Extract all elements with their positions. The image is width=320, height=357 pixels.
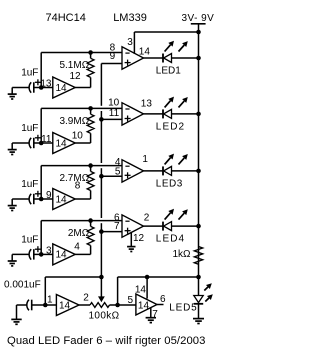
comparator U2d LM339 stage 4 <box>122 215 144 237</box>
node top rail / right rail junction <box>196 30 201 35</box>
wire top (feedback + comparator minus) stage 2 <box>41 107 122 109</box>
svg-text:74HC14: 74HC14 <box>46 12 86 24</box>
wire input node to inverter 3 input <box>41 198 53 200</box>
svg-text:1uF: 1uF <box>21 68 38 79</box>
wire power loop horizontal <box>118 276 199 278</box>
wire capacitor C5 to input node <box>32 304 46 306</box>
plus polarity mark C4 <box>35 248 41 250</box>
wire LED1 to right rail <box>172 57 199 59</box>
emission arrows LED3 <box>165 158 171 165</box>
wire LED5 cathode to ground <box>198 304 200 319</box>
svg-text:8: 8 <box>75 180 81 191</box>
wire input node up to feedback/top wire stage 4 <box>40 221 42 255</box>
plus polarity mark C1 <box>35 81 41 83</box>
ground inverter 6 pin 7 <box>146 317 156 319</box>
wire top rail <box>134 31 198 33</box>
svg-text:1: 1 <box>142 154 148 165</box>
emission arrows LED5 <box>204 287 208 291</box>
emission arrows LED2 <box>165 101 171 108</box>
svg-text:9: 9 <box>110 51 116 62</box>
wire bus to comparator 4 plus input <box>101 231 122 233</box>
wire LED3 to right rail <box>172 170 199 172</box>
svg-text:7: 7 <box>114 221 120 232</box>
node LED2 / rail junction <box>196 112 201 117</box>
wire capacitor C2 to input node <box>34 142 41 144</box>
ground LM339 pin 12 <box>127 246 135 248</box>
wire power terminal to top rail <box>198 24 200 32</box>
wire pin 14 down to inverter 6 <box>146 277 148 299</box>
plus polarity mark C3 <box>35 193 41 195</box>
wire LM339 pin 3 to top rail <box>133 32 135 54</box>
plus mark comparator 3 <box>125 174 131 176</box>
wire inverter 3 output to resistor R3 bottom <box>75 198 90 200</box>
svg-text:LED1: LED1 <box>156 66 181 77</box>
node resistor R3 top <box>88 163 93 168</box>
wire LED4 to right rail <box>172 225 199 227</box>
svg-text:12: 12 <box>133 233 145 244</box>
potentiometer 100k body <box>90 303 110 308</box>
wire bus node down to potentiometer wiper <box>100 277 102 297</box>
node resistor R1 top <box>88 50 93 55</box>
svg-text:LM339: LM339 <box>113 12 147 24</box>
resistor R3 2.7MΩ <box>90 166 92 172</box>
emission arrows LED4 <box>165 213 171 220</box>
wire input node up to feedback/top wire stage 2 <box>40 108 42 143</box>
svg-text:10: 10 <box>108 97 120 108</box>
pin 6 label and output stub <box>157 304 164 306</box>
svg-text:1uF: 1uF <box>21 234 38 245</box>
node resistor R4 top <box>88 218 93 223</box>
LED3 diode symbol <box>162 166 164 175</box>
node power loop to pin 14 <box>145 275 150 280</box>
svg-text:5: 5 <box>127 295 133 306</box>
node LED1 / rail junction <box>196 56 201 61</box>
svg-text:14: 14 <box>56 250 68 261</box>
node rail to inverter power wire <box>196 275 201 280</box>
inverter U1c 74HC14 stage 3 <box>53 189 75 210</box>
power terminal bar <box>191 23 206 25</box>
LED2 diode symbol <box>162 109 164 118</box>
wire capacitor C3 to input node <box>34 198 41 200</box>
svg-text:100kΩ: 100kΩ <box>89 311 120 322</box>
wire feedback up from input node <box>44 277 46 305</box>
svg-text:13: 13 <box>141 99 153 110</box>
minus mark comparator 2 <box>125 108 129 110</box>
inverter U1b 74HC14 stage 2 <box>53 133 75 154</box>
comparator U2a LM339 stage 1 <box>122 47 144 69</box>
svg-text:14: 14 <box>56 194 68 205</box>
wire inverter 4 output to resistor R4 bottom <box>75 253 90 255</box>
node oscillator 1 input <box>39 85 44 90</box>
wire pin5 node up <box>117 277 119 305</box>
wire inverter 5 output to potentiometer <box>79 304 90 306</box>
wire LM339 pin 12 to ground <box>130 232 132 246</box>
wire comparator 2 output to LED2 <box>144 113 164 115</box>
wire input node up to feedback/top wire stage 3 <box>40 166 42 199</box>
plus mark comparator 2 <box>125 118 131 120</box>
wire ground to capacitor C1 <box>12 87 29 89</box>
wire LED2 to right rail <box>172 113 199 115</box>
wire comparator 1 plus input from bus corner <box>101 63 122 65</box>
svg-text:2: 2 <box>144 213 150 224</box>
wire ground to capacitor C3 <box>12 198 29 200</box>
wire pin 7 down <box>150 308 152 318</box>
inverter U1f 74HC14 (buffer) <box>136 294 157 315</box>
svg-text:14: 14 <box>59 300 71 311</box>
svg-text:11: 11 <box>109 108 120 119</box>
svg-text:9: 9 <box>46 190 52 201</box>
wire capacitor C1 to input node <box>34 87 41 89</box>
svg-text:4: 4 <box>74 241 80 252</box>
wire ground to capacitor C2 <box>12 142 29 144</box>
node oscillator 2 input <box>39 141 44 146</box>
minus mark comparator 1 <box>125 52 129 54</box>
wire right power rail <box>198 32 200 296</box>
node feedback / bus / wiper junction <box>99 275 104 280</box>
svg-text:1: 1 <box>47 294 53 305</box>
wire inverter 1 output to resistor R1 bottom <box>75 87 90 89</box>
wire ground to capacitor C4 <box>12 253 29 255</box>
wire inverter 2 output to resistor R2 bottom <box>75 142 90 144</box>
LED1 diode symbol <box>162 54 164 63</box>
wire comparator 3 output to LED3 <box>144 170 164 172</box>
wire comparator 4 output to LED4 <box>144 225 164 227</box>
resistor R2 3.9MΩ <box>90 108 92 114</box>
node oscillator 4 input <box>39 252 44 257</box>
svg-text:14: 14 <box>56 138 68 149</box>
plus mark comparator 4 <box>125 230 131 232</box>
comparator U2c LM339 stage 3 <box>122 160 144 182</box>
minus mark comparator 4 <box>125 220 129 222</box>
capacitor C1 1uF polarized <box>29 82 31 92</box>
wire input node to inverter 5 <box>45 304 56 306</box>
svg-text:1uF: 1uF <box>21 123 38 134</box>
inverter U1e 74HC14 (fast oscillator) <box>56 295 79 316</box>
node bus to comparator 4 plus input <box>99 229 104 234</box>
svg-text:1kΩ: 1kΩ <box>172 249 191 260</box>
svg-text:14: 14 <box>138 301 150 312</box>
svg-text:LED3: LED3 <box>156 179 183 190</box>
wire feedback top to bus/wiper node <box>45 276 101 278</box>
resistor R4 2MΩ <box>90 221 92 227</box>
node LED3 / rail junction <box>196 169 201 174</box>
ground oscillator stage 3 <box>11 199 13 206</box>
capacitor C4 1uF polarized <box>29 249 31 259</box>
node pin5 / power-loop junction <box>115 303 120 308</box>
svg-text:3: 3 <box>46 245 52 256</box>
wire top (feedback + comparator minus) stage 1 <box>41 52 122 54</box>
wire input node up to feedback/top wire stage 1 <box>40 53 42 88</box>
svg-text:2MΩ: 2MΩ <box>68 228 90 239</box>
svg-text:11: 11 <box>41 134 52 145</box>
svg-text:1uF: 1uF <box>21 179 38 190</box>
wire top (feedback + comparator minus) stage 4 <box>41 220 122 222</box>
svg-text:LED4: LED4 <box>156 234 185 245</box>
resistor 1k ohm on rail <box>194 247 202 265</box>
svg-text:5.1MΩ: 5.1MΩ <box>59 60 89 71</box>
LED4 diode symbol <box>162 222 164 231</box>
resistor R1 5.1MΩ <box>90 53 92 59</box>
wire ground to capacitor C5 <box>17 304 28 306</box>
svg-text:6: 6 <box>160 294 166 305</box>
plus mark comparator 1 <box>125 62 131 64</box>
wire potentiometer to pin5 node <box>110 304 118 306</box>
node bus to comparator 2 plus input <box>99 117 104 122</box>
wire pin5 node to inverter 6 input <box>118 304 136 306</box>
wire bus to comparator 3 plus input <box>101 175 122 177</box>
node oscillator 3 input <box>39 197 44 202</box>
svg-text:3: 3 <box>127 37 133 48</box>
minus mark comparator 3 <box>125 165 129 167</box>
svg-text:LED5: LED5 <box>169 303 197 314</box>
capacitor C2 1uF polarized <box>29 138 31 148</box>
svg-text:12: 12 <box>69 71 81 82</box>
wire input node to inverter 4 input <box>41 253 53 255</box>
node bus to comparator 3 plus input <box>99 174 104 179</box>
wire bus to comparator 2 plus input <box>101 118 122 120</box>
ground bottom oscillator <box>16 305 18 319</box>
ground LED5 <box>193 318 204 320</box>
ground oscillator stage 4 <box>11 254 13 261</box>
capacitor C3 1uF polarized <box>29 194 31 204</box>
node resistor R2 top <box>88 106 93 111</box>
svg-text:3.9MΩ: 3.9MΩ <box>59 116 89 127</box>
potentiometer wiper arrow <box>98 296 105 302</box>
wire top (feedback + comparator minus) stage 3 <box>41 165 122 167</box>
wire capacitor C4 to input node <box>34 253 41 255</box>
svg-text:14: 14 <box>139 47 151 58</box>
svg-text:3V- 9V: 3V- 9V <box>182 13 215 24</box>
plus polarity mark C2 <box>35 137 41 139</box>
wire input node to inverter 2 input <box>41 142 53 144</box>
svg-text:0.001uF: 0.001uF <box>4 280 41 291</box>
wire input node to inverter 1 input <box>41 87 53 89</box>
svg-text:13: 13 <box>40 79 52 90</box>
svg-text:14: 14 <box>56 83 68 94</box>
comparator U2b LM339 stage 2 <box>122 103 144 125</box>
ground oscillator stage 1 <box>11 88 13 95</box>
svg-text:10: 10 <box>72 131 84 142</box>
inverter U1a 74HC14 stage 1 <box>53 77 75 98</box>
capacitor C5 0.001uF <box>27 300 29 311</box>
node inverter 5 input <box>43 303 48 308</box>
svg-text:LED2: LED2 <box>156 122 185 133</box>
svg-text:2: 2 <box>83 292 89 303</box>
inverter U1d 74HC14 stage 4 <box>53 244 75 265</box>
LED5 diode symbol (vertical) <box>194 296 203 303</box>
svg-text:Quad LED Fader 6 – wilf rigter: Quad LED Fader 6 – wilf rigter 05/2003 <box>7 335 205 347</box>
wire comparator plus bus (top segment from pin9 corner) <box>100 64 102 106</box>
ground oscillator stage 2 <box>11 143 13 150</box>
node LED4 / rail junction <box>196 224 201 229</box>
emission arrows LED1 <box>165 45 171 52</box>
wire comparator 1 output to LED1 <box>144 57 164 59</box>
